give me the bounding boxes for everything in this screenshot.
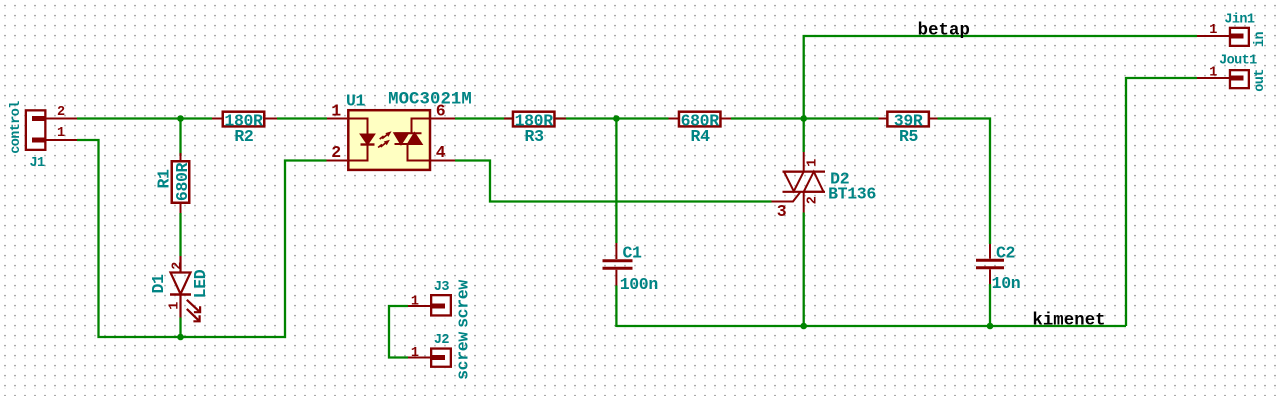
svg-text:J2: J2 [434, 333, 450, 348]
wire net betap riser [804, 36, 1197, 119]
junction node at D2 bottom [800, 323, 807, 330]
junction node at D2 top [800, 115, 807, 122]
connector J2 [408, 349, 451, 367]
svg-text:betap: betap [918, 21, 970, 40]
wire J3 to J2 link [389, 306, 408, 358]
wire junction to D2 [803, 119, 805, 153]
svg-text:2: 2 [806, 196, 821, 204]
wire C1 bottom [615, 286, 617, 328]
svg-text:J3: J3 [434, 280, 450, 295]
wire net kimenet rail [616, 325, 1126, 327]
svg-text:screw: screw [454, 280, 473, 328]
svg-text:control: control [9, 101, 24, 154]
svg-text:U1: U1 [346, 92, 366, 111]
svg-text:10n: 10n [992, 274, 1021, 293]
svg-text:LED: LED [191, 269, 210, 298]
svg-text:C2: C2 [996, 244, 1015, 263]
capacitor C2 [976, 244, 1004, 284]
wire C2 bottom [989, 284, 991, 326]
svg-text:R1: R1 [155, 169, 174, 189]
svg-text:R3: R3 [525, 127, 545, 146]
svg-text:1: 1 [806, 159, 821, 167]
junction node at C2 bottom [987, 323, 994, 330]
U1 internal triac [395, 119, 431, 161]
resistor R4 [669, 112, 732, 127]
connector J3 [408, 295, 451, 315]
resistor R5 [879, 112, 938, 127]
svg-text:Jout1: Jout1 [1219, 54, 1257, 69]
svg-text:R4: R4 [691, 127, 711, 146]
svg-text:2: 2 [57, 105, 65, 120]
junction node at D1 bottom [177, 334, 184, 341]
transistor triac D2 [772, 152, 826, 213]
wire R1 to D1 [179, 213, 181, 256]
wire J1.1 loop to U1 pin2 [77, 140, 327, 337]
wire junction to R1 [179, 119, 181, 157]
svg-text:out: out [1253, 69, 1268, 92]
wire R4 to R5 [731, 117, 879, 119]
svg-text:screw: screw [454, 332, 473, 380]
svg-text:J1: J1 [29, 156, 45, 171]
svg-text:1: 1 [411, 295, 419, 310]
LED D1 [170, 256, 200, 321]
svg-text:1: 1 [1209, 66, 1217, 81]
svg-text:R2: R2 [234, 127, 253, 146]
resistor R1 [172, 153, 190, 213]
svg-text:C1: C1 [622, 244, 642, 263]
wire U1 pin4 to D2 gate [455, 161, 772, 202]
capacitor C1 [603, 243, 633, 286]
connector Jout1 [1197, 70, 1249, 88]
svg-text:R5: R5 [899, 127, 919, 146]
wire R2 to U1 pin1 [277, 117, 327, 119]
junction node at C1 top [613, 115, 620, 122]
svg-text:3: 3 [777, 202, 787, 221]
wire R3 to R4 [556, 117, 669, 119]
svg-text:1: 1 [331, 102, 341, 121]
svg-text:680R: 680R [173, 162, 192, 201]
wire net control J1.2 to R2 [77, 117, 212, 119]
svg-text:2: 2 [331, 143, 341, 162]
wire D2 to kimenet rail [803, 213, 805, 327]
svg-text:BT136: BT136 [828, 184, 876, 203]
wire D1 to bottom rail [179, 318, 181, 338]
svg-text:1: 1 [168, 302, 183, 310]
wire C1 stem [615, 119, 617, 244]
junction node at R1 top [177, 115, 184, 122]
svg-text:100n: 100n [620, 275, 658, 294]
U1 internal LED [348, 119, 375, 161]
resistor R3 [504, 112, 566, 127]
wire R5 to C2 [938, 119, 991, 245]
svg-text:kimenet: kimenet [1032, 312, 1105, 331]
svg-text:1: 1 [57, 126, 65, 141]
U1 light arrows [378, 132, 391, 148]
wire U1 pin6 to R3 [455, 117, 513, 119]
svg-text:2: 2 [171, 262, 186, 270]
svg-text:in: in [1253, 32, 1268, 48]
svg-text:1: 1 [411, 346, 419, 361]
op-amp opto U1 body [327, 110, 456, 170]
resistor R2 [212, 112, 277, 127]
svg-text:4: 4 [436, 143, 446, 162]
connector J1 [26, 110, 77, 150]
svg-text:D1: D1 [149, 274, 168, 294]
svg-text:1: 1 [1209, 23, 1217, 38]
connector Jin1 [1197, 28, 1249, 46]
svg-text:MOC3021M: MOC3021M [388, 91, 472, 110]
wire kimenet to Jout1 [1126, 78, 1197, 326]
svg-text:Jin1: Jin1 [1224, 13, 1255, 28]
